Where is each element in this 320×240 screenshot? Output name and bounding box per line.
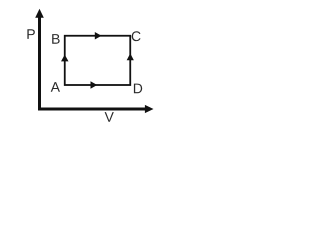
arrowhead on right edge (D to C, up) — [127, 53, 134, 60]
node label B — [52, 34, 59, 44]
P axis (vertical) shaft — [38, 15, 41, 111]
V axis (horizontal) shaft — [38, 108, 147, 111]
arrowhead on bottom edge (A to D, right) — [91, 81, 98, 88]
V axis arrowhead (right) — [145, 105, 154, 113]
node label D — [134, 84, 142, 94]
process rectangle A-B-C-D — [65, 36, 131, 85]
axis label V — [105, 112, 114, 122]
arrowhead on left edge (A to B, up) — [61, 55, 69, 62]
axis label P — [27, 29, 34, 39]
arrowhead on top edge (B to C, right) — [95, 32, 102, 39]
node label C — [132, 31, 141, 41]
node label A — [51, 82, 60, 92]
P axis arrowhead (up) — [35, 9, 44, 18]
